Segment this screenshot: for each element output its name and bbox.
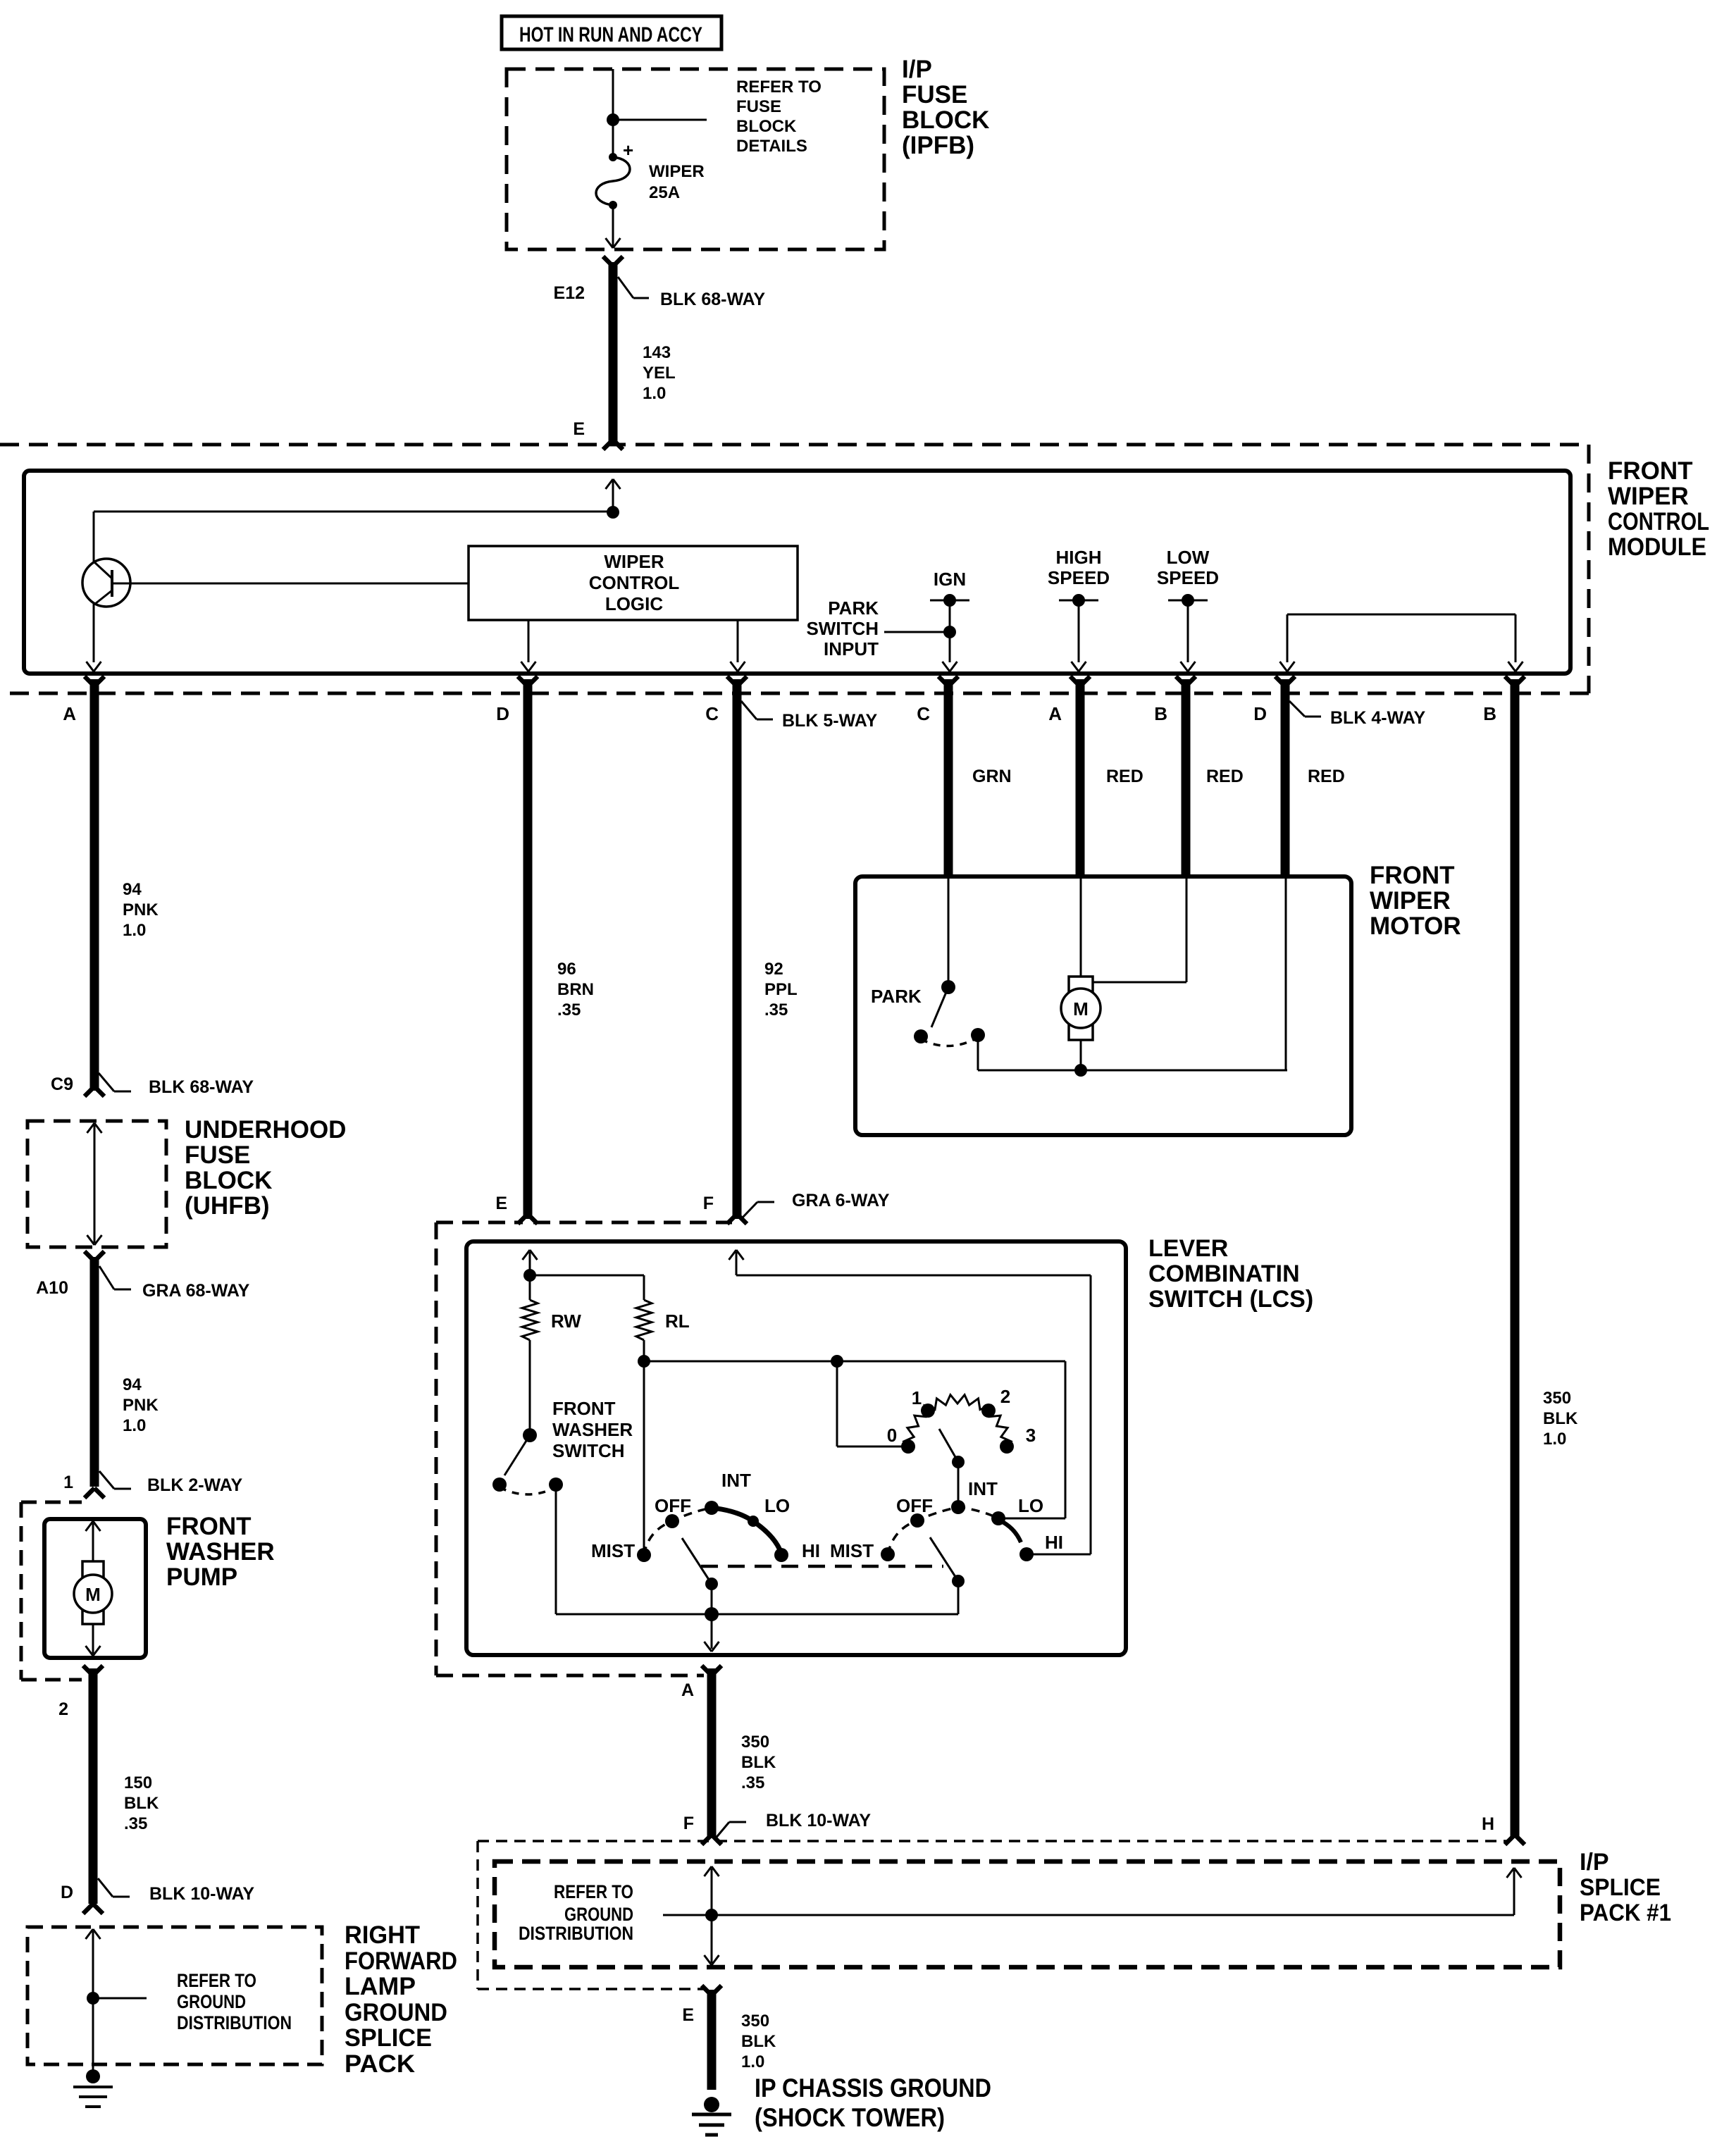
svg-text:143: 143 <box>643 343 671 362</box>
svg-text:350: 350 <box>741 1733 769 1752</box>
svg-text:MIST: MIST <box>591 1540 635 1561</box>
I/P splice pack #1 dashed box <box>495 1861 1560 1967</box>
I/P fuse block (IPFB) dashed box <box>507 69 884 249</box>
svg-text:(IPFB): (IPFB) <box>902 132 974 159</box>
svg-text:FRONT: FRONT <box>1608 457 1693 485</box>
svg-text:A: A <box>63 703 76 724</box>
park switch throw dots <box>914 1028 985 1043</box>
wire 92 PPL (pin C to LCS F) <box>733 679 742 1219</box>
svg-text:2: 2 <box>1000 1386 1010 1407</box>
svg-text:OFF: OFF <box>655 1495 691 1516</box>
svg-text:150: 150 <box>124 1773 152 1792</box>
svg-text:REFER TO: REFER TO <box>554 1881 633 1902</box>
wire junction row to right <box>644 1361 1065 1363</box>
module connector pin D at x=749 <box>496 676 538 724</box>
svg-text:RW: RW <box>551 1311 581 1332</box>
left switch MIST wire <box>643 1361 645 1554</box>
svg-text:F: F <box>683 1814 694 1833</box>
node RL bottom junction <box>638 1355 650 1368</box>
node LCS washer junction <box>523 1269 536 1282</box>
right forward lamp ground splice pack dashed box <box>27 1927 322 2064</box>
wire 94 PNK (pin A to C9) <box>90 679 99 1091</box>
module connector pin B at x=1683 <box>1154 676 1196 724</box>
wire label RED (low) <box>1308 767 1345 786</box>
label REFER TO GROUND DISTRIBUTION (left) <box>177 1970 292 2033</box>
wire motor to common <box>1080 1040 1082 1070</box>
svg-text:CONTROL: CONTROL <box>1608 508 1709 535</box>
module connector pin A at x=1533 <box>1048 676 1090 724</box>
svg-text:HI: HI <box>1045 1532 1063 1553</box>
washer switch contacts <box>492 1477 563 1492</box>
svg-text:FRONT: FRONT <box>166 1513 252 1540</box>
label FRONT WASHER SWITCH <box>552 1398 633 1461</box>
wire label RED (ign) <box>1106 767 1143 786</box>
wire 143 YEL from IPFB to module <box>609 262 618 444</box>
pin E (LCS) <box>495 1194 538 1224</box>
wire junction to RL <box>530 1275 644 1277</box>
wire low speed inside motor <box>1285 876 1287 1070</box>
ground G2 IP chassis <box>692 2097 731 2135</box>
svg-text:A10: A10 <box>36 1278 68 1298</box>
wire 350 BLK (LCS to splice) <box>707 1668 717 1838</box>
svg-text:1.0: 1.0 <box>643 384 666 403</box>
wire label 350 BLK 1.0 (right) <box>1543 1389 1578 1449</box>
svg-text:94: 94 <box>123 880 142 899</box>
wire 350 BLK (pin B to splice pack H) <box>1511 679 1520 1838</box>
node splice #1 junction <box>705 1909 718 1921</box>
wire label 94 PNK 1.0 (upper) <box>123 880 159 940</box>
svg-text:DETAILS: DETAILS <box>736 137 807 156</box>
svg-text:RED: RED <box>1106 767 1143 786</box>
wire junction to transistor collector <box>94 511 613 513</box>
node delay junction <box>831 1355 843 1368</box>
wire RED ign (pin A to motor) <box>1076 679 1085 876</box>
right switch wiper arc LO-HI <box>1000 1520 1021 1542</box>
svg-text:+: + <box>623 140 633 161</box>
svg-text:PNK: PNK <box>123 900 159 919</box>
svg-text:UNDERHOOD: UNDERHOOD <box>185 1116 346 1144</box>
svg-text:INT: INT <box>968 1478 998 1499</box>
transistor Q1 (wiper drive) <box>82 512 130 662</box>
splice pack wire with arrow <box>86 1929 101 2077</box>
svg-text:INT: INT <box>721 1470 751 1491</box>
svg-text:I/P: I/P <box>902 56 932 83</box>
wire GRN park (pin C to motor) <box>944 679 953 876</box>
svg-text:B: B <box>1483 703 1496 724</box>
module connector pin C at x=1346 <box>917 676 958 724</box>
left switch MIST contact <box>637 1548 651 1562</box>
svg-text:HI: HI <box>802 1540 820 1561</box>
svg-text:BLOCK: BLOCK <box>736 117 797 136</box>
washer pump solid box <box>44 1519 146 1658</box>
svg-text:GROUND: GROUND <box>177 1991 246 2012</box>
svg-text:BLOCK: BLOCK <box>185 1167 272 1194</box>
wire label 143 YEL 1.0 <box>643 343 676 403</box>
left switch OFF contact <box>665 1514 679 1528</box>
svg-text:D: D <box>496 703 509 724</box>
wiper control logic box <box>469 546 798 620</box>
svg-text:LEVER: LEVER <box>1148 1235 1228 1262</box>
svg-text:WASHER: WASHER <box>552 1419 633 1440</box>
connector pin A (LCS) <box>681 1666 721 1700</box>
svg-text:BLK: BLK <box>1543 1409 1578 1428</box>
pump arrow bottom <box>86 1624 101 1656</box>
connector pin E12 <box>554 256 623 303</box>
wire label 350 BLK .35 <box>741 1733 776 1792</box>
connector pin H (splice pack) <box>1482 1814 1525 1845</box>
svg-text:WASHER: WASHER <box>166 1538 275 1566</box>
right switch labels <box>830 1478 1063 1561</box>
svg-text:SPLICE: SPLICE <box>1580 1874 1661 1901</box>
leader BLK 10-WAY (splice) <box>714 1811 871 1840</box>
svg-text:IGN: IGN <box>934 569 966 590</box>
svg-text:COMBINATIN: COMBINATIN <box>1148 1260 1300 1287</box>
wire label 96 BRN .35 <box>557 960 594 1020</box>
LCS dashed box <box>436 1222 732 1675</box>
wire label GRN <box>972 767 1012 786</box>
svg-text:RL: RL <box>665 1311 690 1332</box>
svg-text:PUMP: PUMP <box>166 1563 237 1591</box>
svg-text:C: C <box>705 703 719 724</box>
washer switch common <box>504 1428 537 1475</box>
right switch dashed detent arc <box>888 1507 998 1554</box>
wire label 94 PNK 1.0 (lower) <box>123 1375 159 1435</box>
LCS bottom wire <box>556 1607 958 1621</box>
right switch INT contact <box>951 1500 965 1514</box>
svg-text:M: M <box>1073 998 1089 1020</box>
right switch MIST contact <box>881 1547 895 1561</box>
svg-text:1.0: 1.0 <box>123 921 146 940</box>
svg-text:92: 92 <box>764 960 783 979</box>
svg-text:96: 96 <box>557 960 576 979</box>
fuse WIPER 25A <box>596 140 705 209</box>
wire label 92 PPL .35 <box>764 960 798 1020</box>
svg-text:B: B <box>1154 703 1167 724</box>
connector C9 <box>51 1074 104 1096</box>
wire to fuse block details <box>613 119 707 121</box>
arrow into module from pin E <box>606 479 621 512</box>
svg-text:PPL: PPL <box>764 980 798 999</box>
svg-text:FUSE: FUSE <box>736 97 781 116</box>
svg-text:BLK 5-WAY: BLK 5-WAY <box>782 711 878 731</box>
svg-text:INPUT: INPUT <box>824 638 879 659</box>
splice #1 wire to H <box>663 1868 1522 1915</box>
svg-text:SWITCH: SWITCH <box>552 1440 625 1461</box>
svg-text:PNK: PNK <box>123 1396 159 1415</box>
leader BLK 5-WAY <box>741 701 878 731</box>
leader BLK 2-WAY <box>99 1471 243 1495</box>
svg-text:MIST: MIST <box>830 1540 874 1561</box>
svg-text:BLK 10-WAY: BLK 10-WAY <box>766 1811 871 1830</box>
rheostat contact dots <box>901 1404 1014 1454</box>
leader BLK 10-WAY (pump) <box>98 1878 254 1904</box>
svg-text:350: 350 <box>1543 1389 1571 1408</box>
svg-text:E: E <box>682 2005 694 2025</box>
svg-text:LAMP: LAMP <box>345 1973 416 2000</box>
leader BLK 68-WAY (C9) <box>99 1073 254 1097</box>
label PARK <box>871 986 922 1007</box>
svg-text:H: H <box>1482 1814 1494 1834</box>
svg-text:FUSE: FUSE <box>185 1141 250 1169</box>
ground G1 (right forward lamp) <box>73 2069 113 2107</box>
rheostat wiper arm <box>939 1429 965 1507</box>
connector pin E (chassis ground) <box>682 1985 721 2025</box>
module connector pin C at x=1046 <box>705 676 747 724</box>
svg-text:SWITCH (LCS): SWITCH (LCS) <box>1148 1286 1313 1313</box>
LCS solid box <box>466 1241 1126 1655</box>
svg-text:RED: RED <box>1308 767 1345 786</box>
svg-text:(UHFB): (UHFB) <box>185 1192 270 1220</box>
module connector pin D at x=1824 <box>1253 676 1295 724</box>
resistor RW <box>522 1275 581 1340</box>
svg-text:REFER TO: REFER TO <box>177 1970 256 1991</box>
resistor RL <box>636 1275 690 1340</box>
arrow LCS to pin A <box>705 1614 719 1652</box>
svg-text:A: A <box>681 1680 694 1700</box>
wire RED low (pin D to motor) <box>1281 679 1290 876</box>
wire label 150 BLK .35 <box>124 1773 159 1833</box>
svg-text:IP CHASSIS GROUND: IP CHASSIS GROUND <box>755 2074 991 2102</box>
wire RW to washer switch <box>529 1340 531 1435</box>
svg-text:BLK 68-WAY: BLK 68-WAY <box>660 290 765 309</box>
label FRONT WIPER MOTOR <box>1370 862 1461 940</box>
wire low speed to motor brush <box>1093 876 1186 982</box>
svg-text:RED: RED <box>1206 767 1244 786</box>
connector pin F (splice pack) <box>683 1814 721 1845</box>
svg-text:.35: .35 <box>741 1773 764 1792</box>
connector pin 2 (pump) <box>58 1666 103 1719</box>
wire fuse to IPFB bottom with arrow <box>606 205 621 248</box>
pin LOW SPEED <box>1157 547 1219 671</box>
svg-text:BLK 2-WAY: BLK 2-WAY <box>147 1475 243 1495</box>
svg-text:GRA 6-WAY: GRA 6-WAY <box>792 1191 890 1210</box>
svg-text:(SHOCK TOWER): (SHOCK TOWER) <box>755 2103 945 2132</box>
pin F (LCS) <box>703 1194 747 1224</box>
svg-text:GROUND: GROUND <box>564 1904 633 1925</box>
svg-text:LO: LO <box>764 1495 790 1516</box>
label PARK SWITCH INPUT <box>806 597 879 659</box>
svg-text:OFF: OFF <box>896 1495 933 1516</box>
svg-text:SPLICE: SPLICE <box>345 2024 432 2052</box>
motor M1 (wiper) <box>1061 977 1101 1040</box>
rheostat labels 0 1 2 3 <box>887 1386 1036 1446</box>
underhood fuse block dashed box <box>27 1121 166 1247</box>
svg-text:E: E <box>495 1194 507 1213</box>
svg-text:M: M <box>85 1584 101 1605</box>
front wiper control module solid box <box>24 471 1570 674</box>
right switch HI contact <box>1019 1547 1034 1561</box>
svg-text:WIPER: WIPER <box>1608 483 1689 510</box>
svg-text:E12: E12 <box>554 283 585 303</box>
motor M2 (washer pump) <box>74 1561 112 1624</box>
power label box HOT IN RUN AND ACCY <box>502 16 721 49</box>
washer switch dashed throw <box>500 1487 556 1494</box>
transistor base wire <box>113 583 469 585</box>
svg-text:.35: .35 <box>764 1000 788 1020</box>
svg-text:.35: .35 <box>557 1000 581 1020</box>
svg-text:E: E <box>573 419 585 439</box>
left switch labels <box>591 1470 820 1561</box>
label FRONT WIPER CONTROL MODULE <box>1608 457 1709 561</box>
svg-text:DISTRIBUTION: DISTRIBUTION <box>177 2012 292 2033</box>
svg-text:F: F <box>703 1194 714 1213</box>
label RIGHT FORWARD LAMP GROUND SPLICE PACK <box>345 1921 457 2078</box>
svg-text:SPEED: SPEED <box>1048 567 1110 588</box>
washer pump dashed box <box>21 1502 82 1680</box>
svg-text:25A: 25A <box>649 183 680 202</box>
connector pin 1 (pump) <box>63 1473 104 1498</box>
arrow into LCS from pin F <box>729 1250 744 1275</box>
svg-text:GROUND: GROUND <box>345 1999 447 2026</box>
svg-text:BRN: BRN <box>557 980 594 999</box>
label UNDERHOOD FUSE BLOCK (UHFB) <box>185 1116 346 1220</box>
svg-text:WIPER: WIPER <box>604 551 664 572</box>
arrow logic to pin D <box>521 620 536 671</box>
svg-text:LO: LO <box>1018 1495 1043 1516</box>
wire 94 PNK (A10 to washer pump) <box>90 1257 99 1487</box>
wire washer switch to bottom <box>555 1485 557 1614</box>
svg-text:FUSE: FUSE <box>902 81 967 109</box>
node module input junction <box>607 506 619 519</box>
node ground splice junction <box>87 1992 99 2005</box>
node motor common junction <box>1074 1064 1087 1077</box>
svg-text:HIGH: HIGH <box>1056 547 1102 568</box>
label I/P FUSE BLOCK (IPFB) <box>902 56 989 159</box>
label FRONT WASHER PUMP <box>166 1513 275 1591</box>
label IP CHASSIS GROUND (SHOCK TOWER) <box>755 2074 991 2132</box>
svg-text:1: 1 <box>912 1387 922 1408</box>
svg-text:1.0: 1.0 <box>1543 1430 1566 1449</box>
left switch arm <box>682 1538 718 1614</box>
rheostat delay resistor <box>904 1395 1012 1449</box>
left switch dashed detent arc <box>644 1508 712 1555</box>
svg-text:PARK: PARK <box>871 986 922 1007</box>
svg-text:D: D <box>61 1883 73 1902</box>
label REFER TO GROUND DISTRIBUTION (splice 1) <box>519 1881 633 1944</box>
svg-text:LOGIC: LOGIC <box>605 593 664 614</box>
svg-text:SWITCH: SWITCH <box>806 618 879 639</box>
wire label RED (high) <box>1206 767 1244 786</box>
right switch LO contact <box>991 1511 1005 1525</box>
svg-text:PACK #1: PACK #1 <box>1580 1900 1671 1926</box>
svg-text:BLK: BLK <box>741 2032 776 2051</box>
wire from IPFB top to fuse <box>612 69 614 157</box>
svg-text:WIPER: WIPER <box>1370 887 1451 915</box>
svg-text:WIPER: WIPER <box>649 162 705 181</box>
svg-text:HOT IN RUN AND ACCY: HOT IN RUN AND ACCY <box>519 23 702 47</box>
left switch HI contact <box>774 1548 788 1562</box>
svg-text:FORWARD: FORWARD <box>345 1947 457 1975</box>
right switch OFF contact <box>910 1513 924 1528</box>
connector pin D (ground splice) <box>61 1883 103 1914</box>
splice harness outer dashed box <box>478 1841 1510 1989</box>
svg-text:BLK 68-WAY: BLK 68-WAY <box>149 1077 254 1097</box>
svg-text:CONTROL: CONTROL <box>589 572 680 593</box>
svg-text:SPEED: SPEED <box>1157 567 1219 588</box>
label I/P SPLICE PACK #1 <box>1580 1849 1671 1926</box>
svg-text:2: 2 <box>58 1699 68 1719</box>
arrow transistor to pin A <box>87 662 101 671</box>
wire 150 BLK <box>89 1668 98 1904</box>
svg-text:GRA 68-WAY: GRA 68-WAY <box>142 1281 250 1301</box>
svg-text:A: A <box>1048 703 1062 724</box>
pin IGN <box>930 569 969 671</box>
leader BLK 68-WAY (IPFB) <box>618 277 765 309</box>
node junction above fuse <box>607 113 619 126</box>
label REFER TO FUSE BLOCK DETAILS <box>736 78 822 156</box>
splice pack #1 vertical wire <box>705 1866 719 1965</box>
wire through UHFB <box>87 1123 102 1245</box>
wire high speed to motor <box>1080 876 1082 977</box>
svg-text:0: 0 <box>887 1425 897 1446</box>
svg-text:C9: C9 <box>51 1074 73 1094</box>
leader BLK 4-WAY <box>1289 701 1426 728</box>
bracket wire to pins D and B <box>1280 614 1523 671</box>
wire junction to rheostat 0 <box>837 1361 908 1446</box>
svg-text:3: 3 <box>1026 1425 1036 1446</box>
wire label 350 BLK 1.0 (bottom) <box>741 2012 776 2071</box>
pump arrow top <box>86 1521 101 1561</box>
park switch dashed throw <box>921 1038 977 1046</box>
pin E (module) <box>573 419 623 450</box>
wire 350 BLK to chassis ground <box>707 1990 717 2090</box>
wire park switch input <box>884 626 956 638</box>
wire 96 BRN (pin D to LCS E) <box>523 679 533 1219</box>
svg-text:MODULE: MODULE <box>1608 533 1706 561</box>
arrow into LCS from pin E <box>523 1250 538 1275</box>
module connector pin B at x=2150 <box>1483 676 1525 724</box>
svg-text:1.0: 1.0 <box>741 2052 764 2071</box>
leader GRA 6-WAY <box>742 1191 890 1218</box>
left switch INT contact <box>705 1501 719 1515</box>
svg-text:YEL: YEL <box>643 364 676 383</box>
leader GRA 68-WAY <box>99 1266 250 1301</box>
svg-text:DISTRIBUTION: DISTRIBUTION <box>519 1923 633 1944</box>
left switch wiper arc INT-LO-HI <box>712 1508 781 1554</box>
front wiper control module dashed harness box <box>0 445 1589 693</box>
front wiper motor box <box>855 876 1351 1135</box>
pin HIGH SPEED <box>1048 547 1110 671</box>
module connector pin A at x=134 <box>63 676 104 724</box>
wire RL to junction <box>643 1340 645 1361</box>
wire to LO contact <box>1000 1361 1065 1518</box>
svg-text:GRN: GRN <box>972 767 1012 786</box>
svg-text:C: C <box>917 703 930 724</box>
svg-text:D: D <box>1253 703 1267 724</box>
svg-text:94: 94 <box>123 1375 142 1394</box>
svg-text:BLK 4-WAY: BLK 4-WAY <box>1330 708 1426 728</box>
svg-text:BLK 10-WAY: BLK 10-WAY <box>149 1884 254 1904</box>
svg-text:RIGHT: RIGHT <box>345 1921 420 1949</box>
svg-text:FRONT: FRONT <box>1370 862 1455 889</box>
svg-text:LOW: LOW <box>1167 547 1210 568</box>
svg-text:REFER TO: REFER TO <box>736 78 822 97</box>
mechanical link dashed <box>701 1565 943 1568</box>
svg-text:FRONT: FRONT <box>552 1398 616 1419</box>
svg-text:BLOCK: BLOCK <box>902 106 989 134</box>
svg-text:BLK: BLK <box>741 1753 776 1772</box>
right switch arm <box>930 1537 965 1614</box>
svg-text:.35: .35 <box>124 1814 147 1833</box>
wire HI contact to pin F <box>736 1275 1091 1554</box>
svg-text:BLK: BLK <box>124 1794 159 1813</box>
arrow logic to pin C <box>731 620 745 671</box>
connector pin A10 <box>36 1251 104 1298</box>
svg-text:MOTOR: MOTOR <box>1370 912 1461 940</box>
wire RED high (pin B to motor) <box>1182 679 1191 876</box>
svg-text:1.0: 1.0 <box>123 1416 146 1435</box>
svg-text:PARK: PARK <box>828 597 879 619</box>
